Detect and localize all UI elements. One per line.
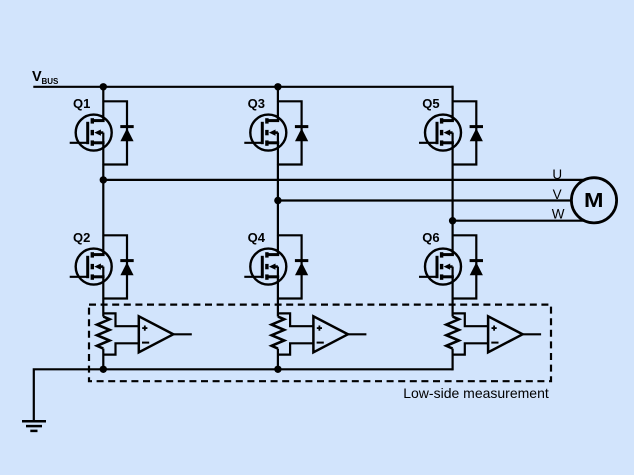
svg-text:U: U bbox=[552, 167, 562, 182]
body diode of Q3 bbox=[278, 101, 308, 164]
wire: leg3 drain feed bbox=[452, 86, 454, 102]
wire: phase V line bbox=[278, 199, 592, 201]
wire: leg3 shunt to ground rail bbox=[452, 349, 454, 371]
wire: leg3 Q6 source to shunt bbox=[452, 298, 454, 316]
wire: leg3 phase link Q5 source to Q6 drain bbox=[452, 164, 454, 235]
wire: leg2 shunt to ground rail bbox=[277, 349, 279, 370]
svg-text:Q5: Q5 bbox=[422, 96, 439, 111]
body diode of Q6 bbox=[453, 235, 483, 298]
svg-text:BUS: BUS bbox=[42, 77, 60, 86]
svg-text:Q1: Q1 bbox=[73, 96, 90, 111]
ground bbox=[22, 421, 46, 431]
wire: R1 top sense tap bbox=[103, 313, 139, 326]
shunt resistor R1 bbox=[97, 317, 110, 349]
junction dot bus/leg1 bbox=[100, 83, 107, 90]
shunt resistor R3 bbox=[446, 317, 459, 349]
transistor Q2 bbox=[70, 235, 112, 298]
body diode of Q1 bbox=[103, 101, 133, 164]
low-side measurement boundary box bbox=[89, 305, 551, 382]
wire: leg2 Q4 source to shunt bbox=[277, 298, 279, 316]
wire: leg2 phase link Q3 source to Q4 drain bbox=[277, 164, 279, 235]
transistor Q1 bbox=[70, 101, 112, 164]
motor M1 bbox=[571, 178, 616, 223]
svg-text:V: V bbox=[32, 69, 42, 85]
wire: leg1 drain feed bbox=[102, 87, 104, 102]
wire: R1 bottom sense tap bbox=[103, 343, 139, 354]
wire: V_BUS bus rail bbox=[33, 86, 452, 88]
wire: R3 bottom sense tap bbox=[453, 343, 489, 354]
svg-text:Q2: Q2 bbox=[73, 230, 90, 245]
wire: leg1 Q2 source to shunt bbox=[102, 298, 104, 316]
svg-text:Q4: Q4 bbox=[248, 230, 266, 245]
shunt resistor R2 bbox=[272, 317, 285, 349]
wire: ground rail bbox=[34, 369, 453, 420]
op-amp U3 bbox=[488, 316, 541, 352]
junction dot rail/leg1 bbox=[100, 366, 107, 373]
wire: leg1 shunt to ground rail bbox=[102, 349, 104, 370]
body diode of Q4 bbox=[278, 235, 308, 298]
transistor Q4 bbox=[244, 235, 286, 298]
transistor Q5 bbox=[419, 101, 461, 164]
wire: leg2 drain feed bbox=[277, 87, 279, 102]
wire: leg1 phase link Q1 source to Q2 drain bbox=[102, 164, 104, 235]
op-amp U2 bbox=[313, 316, 366, 352]
junction node W on leg3 bbox=[449, 217, 456, 224]
wire: phase W line bbox=[453, 220, 592, 222]
svg-text:Q3: Q3 bbox=[248, 96, 265, 111]
wire: R2 top sense tap bbox=[278, 313, 314, 326]
body diode of Q5 bbox=[453, 101, 483, 164]
transistor Q3 bbox=[244, 101, 286, 164]
transistor Q6 bbox=[419, 235, 461, 298]
junction dot bus/leg2 bbox=[274, 83, 281, 90]
wire: R2 bottom sense tap bbox=[278, 343, 314, 354]
junction node V on leg2 bbox=[274, 197, 281, 204]
wire: R3 top sense tap bbox=[453, 313, 489, 326]
net label V_BUS bbox=[32, 69, 59, 86]
svg-text:Low-side measurement: Low-side measurement bbox=[403, 385, 549, 401]
svg-text:W: W bbox=[552, 206, 565, 221]
svg-text:V: V bbox=[553, 187, 562, 202]
junction dot rail/leg2 bbox=[274, 366, 281, 373]
body diode of Q2 bbox=[103, 235, 133, 298]
junction node U on leg1 bbox=[100, 176, 107, 183]
svg-text:Q6: Q6 bbox=[422, 230, 439, 245]
wire: phase U line bbox=[103, 179, 592, 181]
svg-text:M: M bbox=[584, 188, 603, 211]
op-amp U1 bbox=[139, 316, 192, 352]
